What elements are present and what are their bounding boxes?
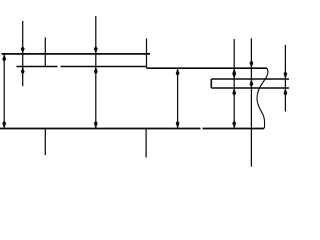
arrowhead V234 H6 up — [232, 88, 236, 95]
arrowhead V1 top up — [2, 54, 6, 61]
arrowhead V251 H3 down — [250, 61, 254, 68]
extension line below bottom edge at x=146 — [145, 129, 147, 158]
arrowhead V177 H3 up — [176, 68, 180, 75]
arrowhead V251 H5 up — [250, 79, 254, 86]
overall height dimension line V1 — [3, 54, 5, 129]
arrowhead V234 H5 down — [232, 72, 236, 79]
step edge / extension line V at x=146.5 — [146, 39, 148, 69]
right plate top edge H5 — [211, 78, 289, 80]
arrowhead V4 H1 down — [94, 47, 98, 54]
right plate bottom edge H6 — [211, 87, 289, 89]
freehand break line — [257, 68, 268, 128]
arrowhead V2 H1 down — [21, 47, 25, 54]
arrowhead V4 H2 up — [94, 67, 98, 74]
arrowhead V234 H3 up — [232, 68, 236, 75]
dimension line V234 (chain) — [233, 39, 235, 128]
arrowhead V285 H5 down — [284, 72, 288, 79]
lower edge H2 (left band bottom, with small gap) — [16, 66, 146, 68]
right plate left edge V5 — [210, 79, 212, 88]
arrowhead V1 bottom down — [2, 121, 6, 128]
dimension line V177 (H3 to H4) — [177, 68, 179, 128]
arrowhead V2 H2 up — [21, 67, 25, 74]
arrowhead V234 H4 down — [232, 121, 236, 128]
dimension line V4 — [95, 16, 97, 129]
arrowhead V4 H4 down — [94, 121, 98, 128]
dimension line V251 — [250, 38, 252, 167]
dimension line V285 — [284, 45, 286, 112]
extension line V3 above — [44, 38, 46, 67]
arrowhead V177 H4 down — [176, 121, 180, 128]
top edge H1 — [2, 53, 151, 55]
dimension line V2 (outside arrows, left band) — [22, 21, 24, 86]
extension line V3 below bottom edge — [44, 129, 46, 156]
bottom edge H4 (with small gap) — [0, 128, 264, 130]
arrowhead V285 H6 up — [284, 88, 288, 95]
right top edge H3 — [147, 67, 268, 69]
